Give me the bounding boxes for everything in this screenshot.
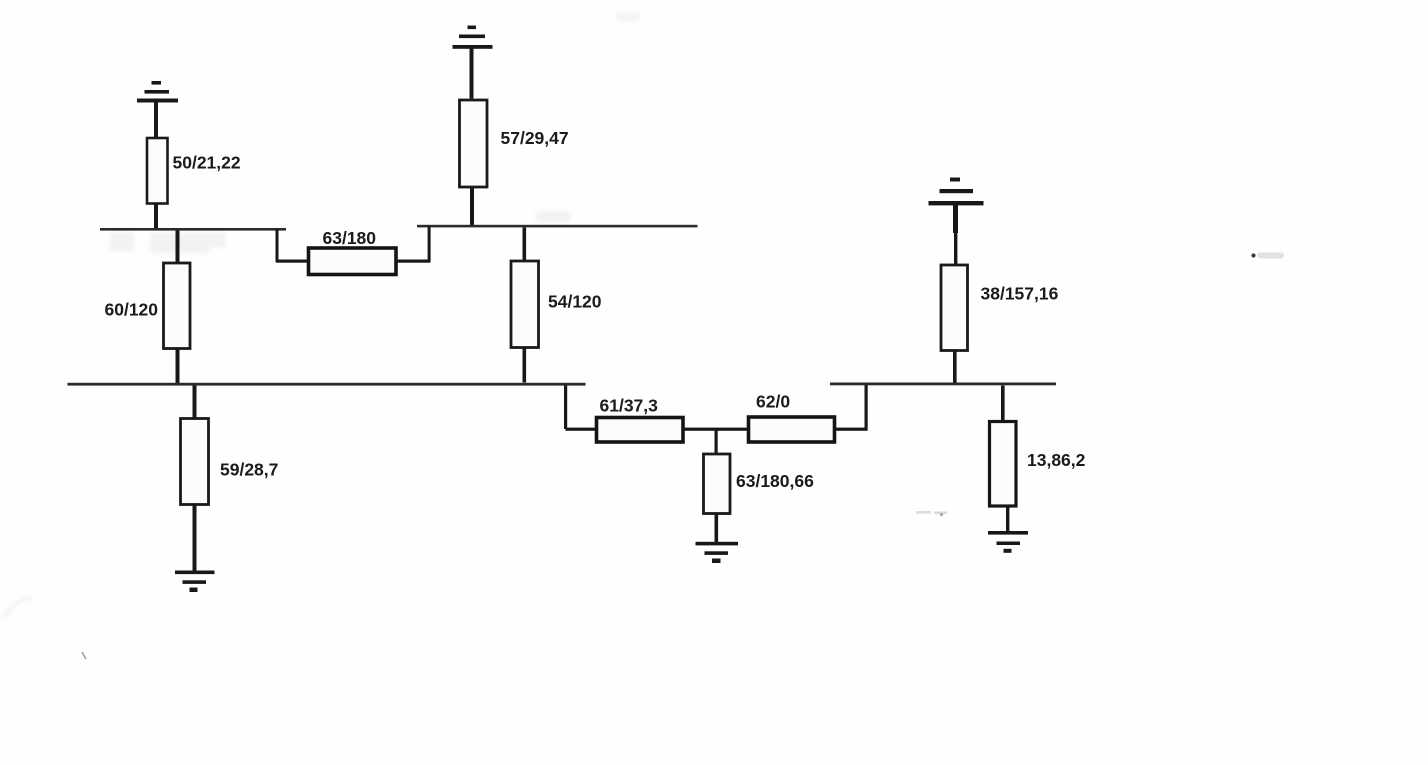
wire bus 4 down-step to resistor 61/37,3 — [564, 386, 567, 430]
svg-text:60/120: 60/120 — [105, 300, 159, 320]
wire left lead of resistor 61/37,3 — [566, 428, 596, 431]
ground G6 (below resistor 13,86,2) — [988, 531, 1028, 553]
bus 1 (upper-left busbar) — [100, 228, 286, 231]
resistor 63/180,66 — [704, 454, 731, 514]
bus 3 (right busbar) — [830, 383, 1056, 386]
wire left lead of resistor 63/180 — [276, 260, 308, 263]
resistor 59/28,7 — [181, 419, 209, 505]
wire bus 4 to resistor 59/28,7 — [193, 386, 197, 418]
scan smudge near resistor 13,86,2 — [916, 511, 947, 516]
wire resistor 59/28,7 to ground G4 — [193, 505, 197, 572]
scan smudge below bus 1 — [110, 233, 226, 253]
wire bus 2 to resistor 54/120 — [523, 228, 527, 261]
wire resistor 38/157,16 to bus 3 — [953, 351, 957, 384]
wire resistor 54/120 to bus 4 — [523, 348, 527, 383]
resistor 50/21,22 — [147, 138, 168, 204]
svg-text:57/29,47: 57/29,47 — [501, 128, 569, 148]
ground G1 (top, above resistor 50/21,22) — [137, 81, 178, 103]
svg-text:54/120: 54/120 — [548, 292, 602, 312]
svg-text:59/28,7: 59/28,7 — [220, 459, 278, 479]
resistor 13,86,2 — [990, 422, 1017, 507]
wire node down to resistor 63/180,66 — [715, 430, 718, 454]
wire G2 stem to resistor 57/29,47 — [470, 49, 474, 99]
svg-text:61/37,3: 61/37,3 — [600, 395, 659, 415]
ground G5 (below resistor 63/180,66) — [696, 542, 739, 563]
svg-text:13,86,2: 13,86,2 — [1027, 450, 1086, 470]
resistor 38/157,16 — [941, 265, 968, 351]
ground G3 (top, above resistor 38/157,16) — [929, 178, 984, 206]
wire bus 1 to resistor 60/120 — [176, 231, 180, 264]
wire resistor 60/120 to bus 4 — [176, 349, 180, 384]
wire node between resistor 61/37,3 and resistor 62/0 — [683, 428, 748, 431]
svg-text:63/180,66: 63/180,66 — [736, 471, 814, 491]
wire resistor 63/180,66 to ground G5 — [715, 514, 719, 543]
wire resistor 13,86,2 to ground G6 — [1006, 506, 1009, 532]
scan faint curve bottom-left — [4, 597, 32, 618]
scan smudge top-middle — [616, 13, 640, 21]
wire right lead of resistor 63/180 — [396, 260, 430, 263]
svg-text:63/180: 63/180 — [323, 228, 377, 248]
ground G2 (top, above resistor 57/29,47) — [453, 26, 493, 49]
wire resistor 50/21,22 to bus 1 — [154, 204, 158, 229]
wire bus 3 to resistor 13,86,2 — [1001, 386, 1005, 421]
resistor 61/37,3 — [597, 418, 684, 443]
scan smudge above bus 2 — [536, 211, 570, 222]
resistor 57/29,47 — [460, 100, 488, 187]
resistor 60/120 — [164, 263, 191, 349]
svg-text:50/21,22: 50/21,22 — [173, 152, 241, 172]
wire G1 stem to resistor 50/21,22 — [154, 102, 158, 138]
resistor 63/180 — [309, 248, 397, 275]
wire right lead of resistor 62/0 — [835, 428, 868, 431]
bus 4 (lower-left long busbar) — [68, 383, 586, 386]
wire resistor 57/29,47 to bus 2 — [470, 187, 474, 225]
wire bus 1 down-step to resistor 63/180 — [276, 229, 279, 262]
wire up-step from resistor 63/180 to bus 2 — [428, 227, 431, 263]
ground G4 (below resistor 59/28,7) — [175, 571, 215, 593]
resistor 54/120 — [511, 261, 539, 348]
svg-text:38/157,16: 38/157,16 — [981, 283, 1059, 303]
svg-text:62/0: 62/0 — [756, 391, 790, 411]
resistor 62/0 — [749, 417, 835, 442]
bus 2 (upper-middle busbar) — [417, 225, 698, 228]
scan tick mark — [82, 652, 86, 659]
wire up-step from resistor 62/0 to bus 3 — [865, 385, 868, 431]
scan speck near right edge — [1251, 253, 1284, 259]
wire G3 stem to resistor 38/157,16 — [953, 205, 958, 233]
